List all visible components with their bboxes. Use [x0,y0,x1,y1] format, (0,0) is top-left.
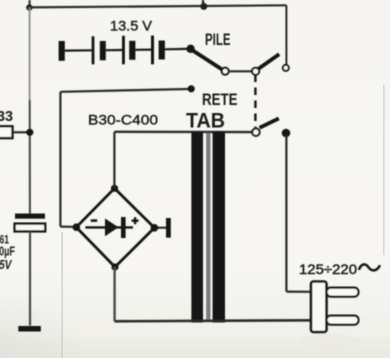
capacitor C1 top plate [15,214,45,219]
label capacitor voltage 5V (cut) [0,257,13,272]
node bridge bottom vertex [111,263,118,270]
scan fold artifact left [61,232,63,358]
terminal + output bar [166,218,171,238]
svg-text:PILE: PILE [205,31,231,49]
switch S1b pivot circle [252,68,259,75]
label minus polarity [91,219,97,222]
battery B1 (13.5V pile) [59,36,187,65]
label RETE [202,91,238,109]
transformer T1 secondary winding bar [213,132,225,323]
capacitor C1 bottom plate (electrolytic outline) [15,224,46,232]
label B30-C400 bridge type [88,112,158,128]
label capacitor designator 61 (cut) [0,235,9,247]
label plus polarity [132,217,139,224]
wire left AC rail down [59,92,61,227]
node bridge left vertex [73,223,81,231]
svg-text:13.5 V: 13.5 V [110,19,152,34]
switch S1a blade (PILE, closed) [192,50,222,70]
ground bar [18,326,41,332]
switch S1b contact circle [283,65,289,71]
diode D1 inside bridge [85,217,133,238]
wire into plug upper terminal [286,291,311,293]
svg-text:TAB: TAB [186,110,225,133]
svg-text:RETE: RETE [202,91,238,109]
svg-text:B30-C400: B30-C400 [88,112,158,128]
wire capacitor to ground [29,232,31,326]
node top-left junction [26,4,32,10]
scan fold artifact right [383,85,385,255]
node bridge right vertex [151,224,159,232]
bridge rectifier B30-C400 diamond [76,188,154,267]
label PILE [205,31,231,49]
wire left rail (top bus down to capacitor) [29,8,31,215]
wire bottom bus to plug lower terminal [115,320,311,321]
resistor R (cut off at edge) [0,126,13,138]
label 125÷220 mains voltage [299,262,357,277]
node battery output (switch S1a pivot) [186,45,194,53]
switch S1a contact circle [222,68,229,75]
label TAB transformer [186,110,225,133]
wire bridge top vertex up to primary line [113,132,115,188]
node top-middle junction with stub up [200,0,207,10]
wire transformer top line to RETE switch [114,131,251,134]
node RETE wire end terminal [188,85,195,92]
node S2 contact [282,129,291,138]
wire between switch contacts [229,70,252,72]
wire into bridge left vertex [60,226,73,228]
wire bridge bottom vertex down [113,267,115,321]
svg-text:125÷220: 125÷220 [299,262,357,277]
AC tilde symbol [359,264,380,270]
switch S2 pivot circle (RETE) [252,129,259,136]
wire right rail down to plug [285,135,287,292]
plug P1 upper prong [327,288,359,297]
mechanical gang link (dashed) [254,75,256,128]
label 33 (resistor value, cut off) [0,108,13,125]
transformer T1 primary winding bar [191,132,203,323]
transformer T1 core line [206,133,210,321]
wire RETE feed horizontal [61,89,189,92]
node bridge top vertex [111,185,118,192]
wire bridge output + [158,227,166,229]
wire right vertical drop to switch contact [285,5,287,65]
wire resistor to rail [13,131,28,133]
switch S2 blade (open) [260,118,279,127]
wire top horizontal bus [29,5,286,7]
svg-text:33: 33 [0,108,13,125]
plug P1 lower prong [327,316,359,325]
label capacitor value 0µF (cut) [0,245,15,259]
plug P1 body [311,282,327,333]
node resistor/rail junction [26,129,33,136]
label 13.5 V battery value [110,19,152,34]
shadow smudge under plug [301,335,361,348]
svg-text:5V: 5V [0,257,13,272]
switch S1b blade (open) [259,54,280,68]
wire stub up from top-left node [29,0,31,8]
